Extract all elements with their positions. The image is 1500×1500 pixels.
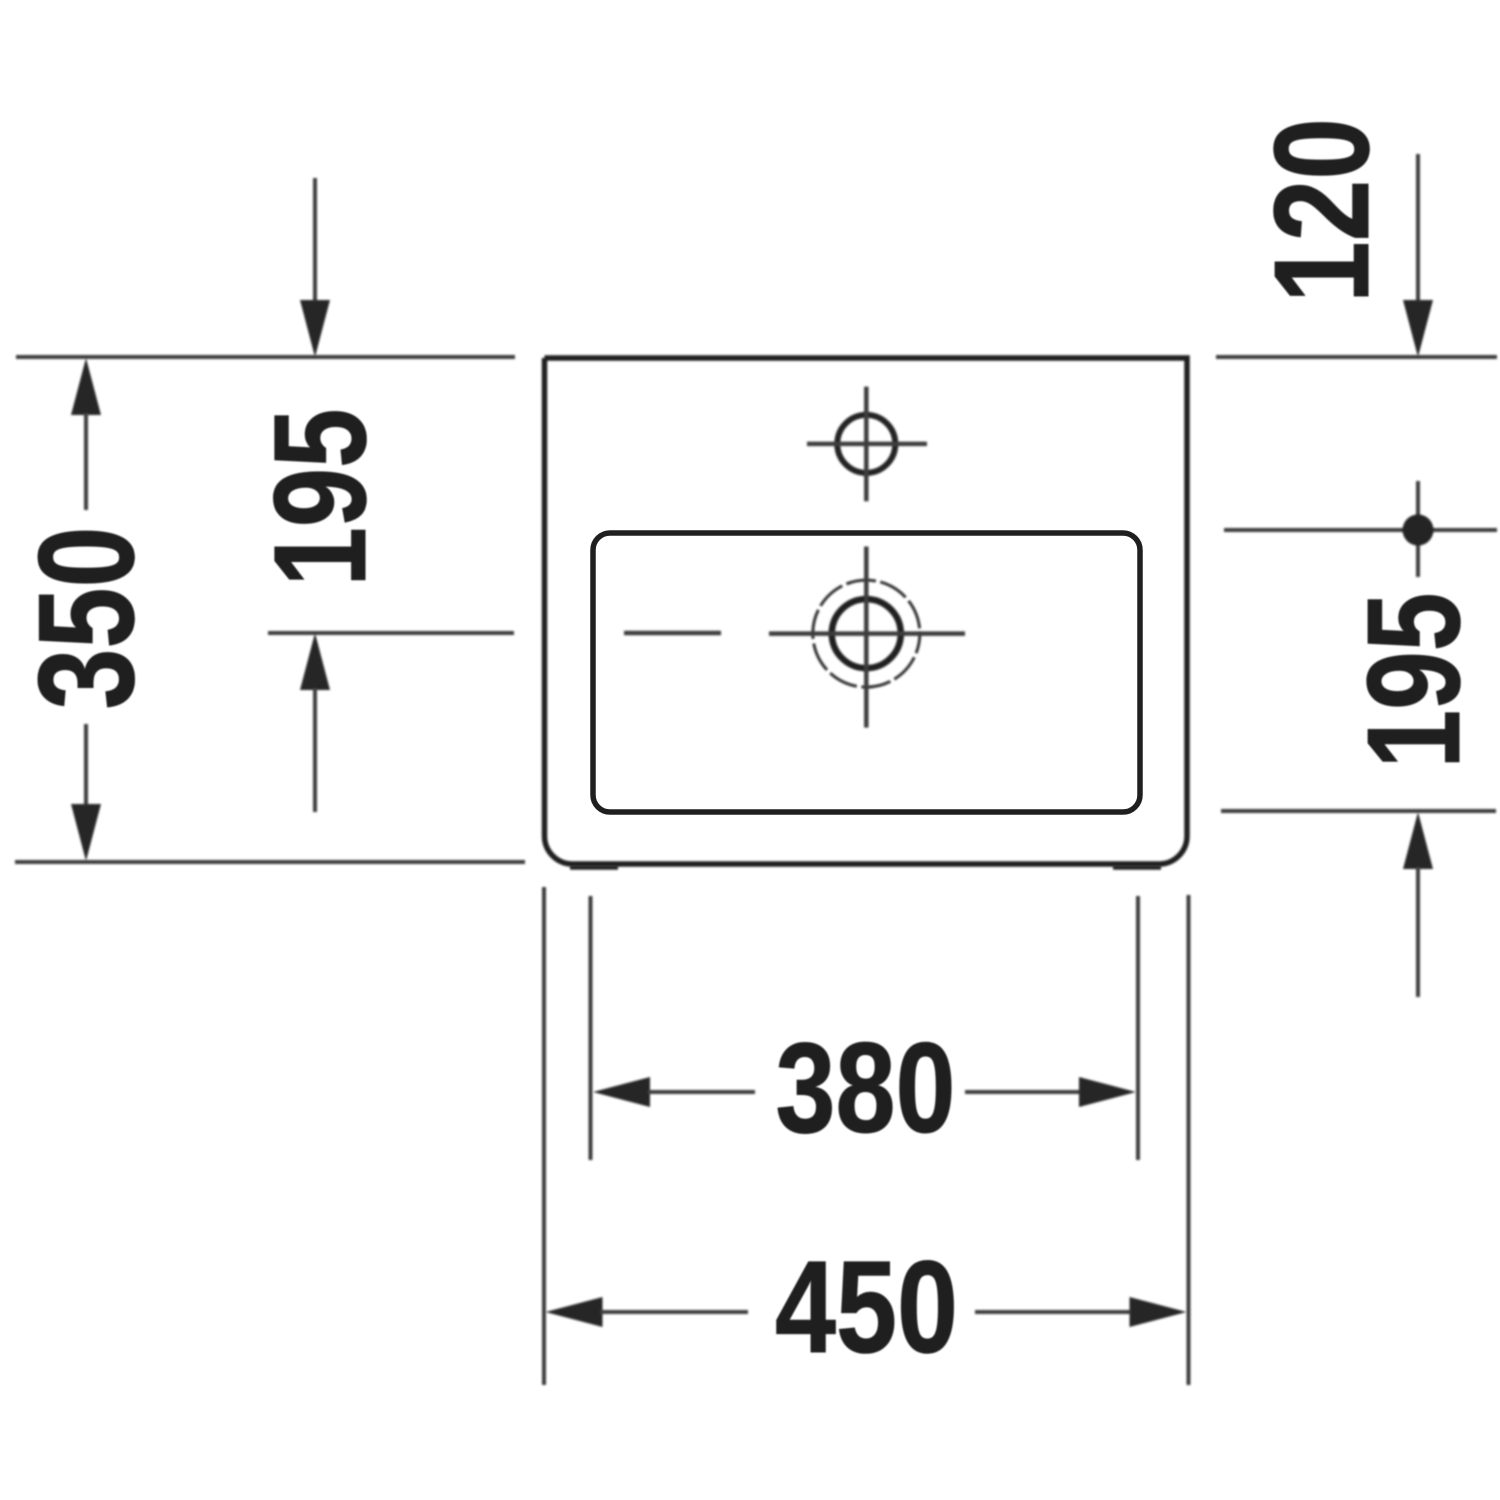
dim 450 left arrowhead — [546, 1297, 603, 1327]
faucet hole center cross vertical — [864, 387, 869, 502]
reference dot — [1403, 515, 1434, 546]
dimension line 195 left — [268, 631, 514, 635]
drain outer circle — [813, 580, 920, 687]
extension line basin bottom right — [1221, 809, 1496, 813]
basin inner bowl outline — [593, 533, 1140, 812]
drain center line dash left — [624, 631, 721, 636]
svg-text:195: 195 — [246, 409, 393, 587]
dim 450 right arrowhead — [1130, 1297, 1187, 1327]
dim 195 right arrow shaft — [1416, 867, 1420, 997]
reference line 120 right with dot — [1224, 528, 1497, 532]
svg-text:195: 195 — [1340, 593, 1487, 769]
faucet hole circle — [837, 415, 895, 473]
dim 195 left bottom arrowhead — [300, 633, 330, 690]
extension line bottom left — [15, 860, 525, 864]
faucet hole center cross horizontal — [807, 442, 927, 447]
washbasin outer outline — [545, 358, 1188, 864]
dim 380 left arrowhead — [593, 1077, 650, 1107]
dim 120 arrowhead — [1403, 300, 1433, 357]
svg-text:350: 350 — [10, 527, 162, 710]
dim 380 right arrowhead — [1079, 1077, 1136, 1107]
dim 350 top arrow shaft — [84, 413, 88, 510]
svg-text:380: 380 — [776, 1017, 956, 1160]
dim 380 right arrow shaft — [965, 1090, 1081, 1094]
dim 350 bottom arrow shaft — [84, 724, 88, 806]
extension line below sink left 380 — [589, 896, 593, 1160]
extension line top right — [1216, 355, 1497, 359]
dim 195 left bottom arrow shaft — [313, 688, 317, 812]
reference dot vertical line — [1416, 481, 1420, 577]
dim 350 top arrowhead — [71, 358, 101, 415]
dim 450 right arrow shaft — [975, 1310, 1131, 1314]
dim 350 bottom arrowhead — [71, 804, 101, 861]
svg-text:450: 450 — [775, 1233, 958, 1380]
right foot tick — [1113, 865, 1161, 870]
extension line below sink right 450 — [1187, 895, 1191, 1385]
extension line below sink right 380 — [1136, 896, 1140, 1160]
drain inner circle — [832, 599, 901, 668]
dim 380 left arrow shaft — [648, 1090, 755, 1094]
extension line top left — [16, 355, 515, 359]
svg-text:120: 120 — [1246, 118, 1397, 303]
dim 195 left top arrow shaft — [313, 178, 317, 302]
dim 120 arrow shaft — [1416, 154, 1420, 302]
dim 195 left top arrowhead — [300, 300, 330, 357]
drain center cross horizontal — [769, 631, 965, 636]
extension line below sink left 450 — [542, 887, 546, 1385]
left foot tick — [570, 865, 618, 870]
dim 195 right arrowhead — [1403, 812, 1433, 869]
dim 450 left arrow shaft — [600, 1310, 748, 1314]
drain center cross vertical — [864, 547, 869, 728]
